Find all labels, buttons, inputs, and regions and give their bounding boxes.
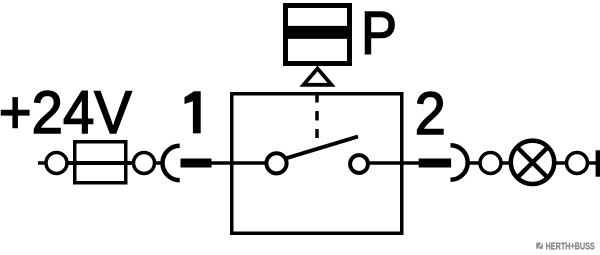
switch contact left: [266, 153, 286, 173]
wire into box left: [154, 161, 163, 165]
connector female arc left: [163, 146, 180, 180]
svg-text:HERTH+BUSS: HERTH+BUSS: [546, 240, 595, 251]
fuse F1: [75, 142, 126, 183]
connector female arc right: [451, 145, 468, 179]
logo icon slash: [537, 242, 543, 249]
connector male pin 2: [419, 159, 451, 168]
dashed actuator line: [315, 93, 319, 138]
wire left stub: [38, 161, 47, 165]
wire fuse-through: [66, 161, 135, 165]
lamp E1 circle: [511, 141, 554, 184]
wire to ground bar: [588, 161, 597, 165]
wire arc to circle: [468, 161, 481, 165]
switch contact right: [350, 155, 368, 173]
ground terminal bar: [596, 150, 600, 176]
svg-text:2: 2: [415, 80, 446, 147]
label 1: [185, 91, 201, 133]
wire out of box right: [402, 161, 420, 165]
terminal circle left: [46, 153, 67, 174]
wire lamp to circle: [555, 161, 567, 165]
connector male pin 1: [181, 159, 212, 168]
pressure symbol band: [286, 26, 350, 39]
connector circle after fuse: [134, 153, 155, 174]
switch body box: [232, 94, 402, 234]
terminal circle right: [567, 153, 588, 174]
svg-text:+24V: +24V: [0, 79, 132, 146]
lamp cross stroke 1: [517, 147, 548, 178]
wire inside box right: [368, 161, 401, 165]
lamp cross stroke 2: [517, 147, 548, 178]
pressure actuator triangle: [304, 69, 332, 85]
pressure symbol body: [286, 6, 350, 64]
wire circle to lamp: [501, 161, 512, 165]
logo icon square: [536, 243, 543, 249]
svg-text:P: P: [361, 0, 397, 67]
switch lever: [287, 137, 358, 159]
logo HERTH+BUSS: [536, 240, 595, 251]
connector circle right: [480, 153, 501, 174]
